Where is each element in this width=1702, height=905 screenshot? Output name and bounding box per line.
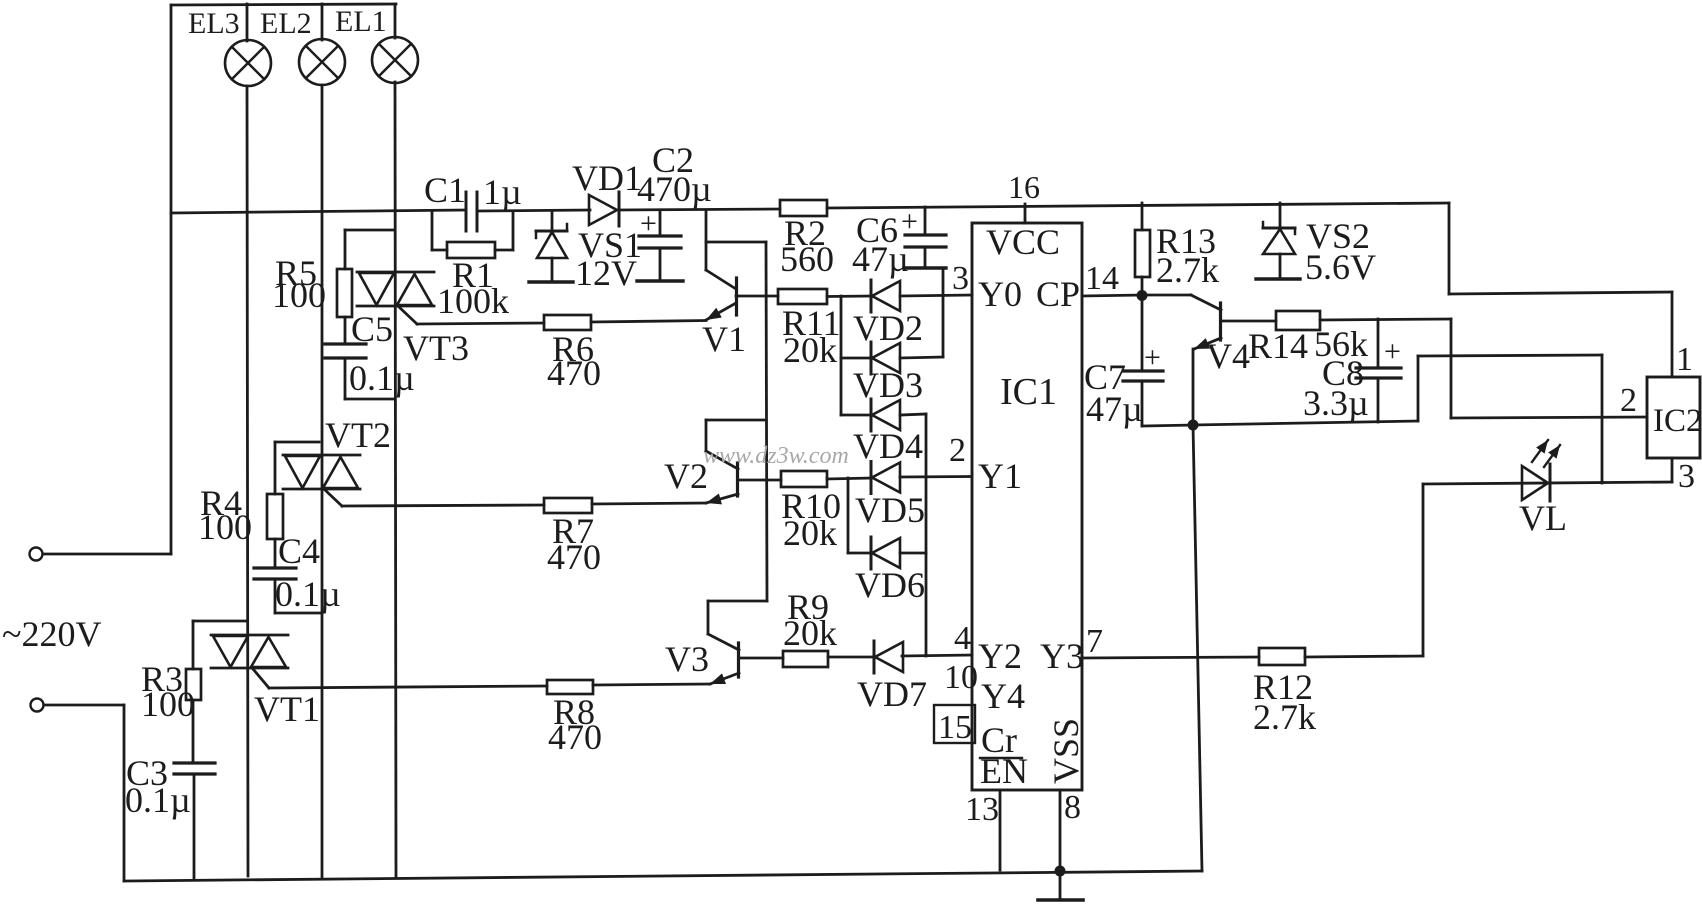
svg-text:VD4: VD4 [853,426,923,466]
svg-text:2.7k: 2.7k [1253,697,1316,737]
svg-text:Y2: Y2 [978,636,1022,676]
svg-text:1µ: 1µ [483,172,522,212]
svg-text:5.6V: 5.6V [1305,247,1376,287]
svg-text:47µ: 47µ [1086,389,1143,429]
svg-text:C1: C1 [424,170,466,210]
svg-text:~220V: ~220V [2,614,101,654]
svg-text:4: 4 [954,620,971,657]
svg-text:470: 470 [548,717,602,757]
svg-text:+: + [640,207,657,240]
svg-text:EN: EN [980,751,1028,791]
svg-text:VD2: VD2 [853,308,923,348]
svg-text:VCC: VCC [986,222,1060,262]
svg-text:EL2: EL2 [260,7,312,40]
svg-text:VD1: VD1 [572,158,642,198]
svg-text:100: 100 [141,684,195,724]
svg-text:14: 14 [1085,260,1119,297]
svg-text:2: 2 [1620,382,1637,419]
svg-text:VD6: VD6 [855,565,925,605]
svg-text:R14: R14 [1248,326,1308,366]
svg-text:15: 15 [938,709,972,746]
svg-text:V4: V4 [1206,336,1250,376]
svg-text:+: + [1144,341,1161,374]
svg-text:1: 1 [1676,341,1693,378]
svg-text:EL3: EL3 [188,7,240,40]
svg-text:+: + [901,205,918,238]
svg-text:VL: VL [1519,498,1567,538]
svg-text:V1: V1 [702,319,746,359]
svg-text:8: 8 [1064,789,1081,826]
svg-text:IC2: IC2 [1653,403,1702,439]
svg-text:470: 470 [547,353,601,393]
svg-text:16: 16 [1008,169,1040,205]
svg-text:100k: 100k [437,281,509,321]
svg-text:3: 3 [952,260,969,297]
svg-text:Y3: Y3 [1040,636,1084,676]
svg-text:3.3µ: 3.3µ [1303,383,1369,423]
svg-text:12V: 12V [575,253,637,293]
svg-text:Y1: Y1 [978,456,1022,496]
svg-text:20k: 20k [783,513,837,553]
svg-text:0.1µ: 0.1µ [349,358,415,398]
svg-text:C5: C5 [351,309,393,349]
svg-text:VD3: VD3 [853,365,923,405]
svg-text:560: 560 [780,239,834,279]
svg-text:VD7: VD7 [857,674,927,714]
svg-text:Y4: Y4 [981,676,1025,716]
svg-text:VSS: VSS [1046,718,1086,784]
svg-text:V2: V2 [664,456,708,496]
svg-text:C4: C4 [278,531,320,571]
svg-text:20k: 20k [783,330,837,370]
svg-text:7: 7 [1086,623,1103,660]
svg-text:2: 2 [949,432,966,469]
svg-text:CP: CP [1036,274,1080,314]
svg-text:20k: 20k [783,613,837,653]
svg-text:47µ: 47µ [852,239,909,279]
svg-text:2.7k: 2.7k [1156,250,1219,290]
svg-text:10: 10 [944,659,978,696]
svg-text:0.1µ: 0.1µ [275,574,341,614]
svg-text:VT2: VT2 [325,415,391,455]
svg-text:3: 3 [1678,458,1695,495]
svg-text:V3: V3 [665,639,709,679]
svg-text:Y0: Y0 [978,274,1022,314]
svg-text:VT1: VT1 [254,689,320,729]
svg-text:470: 470 [547,537,601,577]
svg-text:IC1: IC1 [1000,371,1057,413]
svg-text:100: 100 [198,507,252,547]
svg-text:www.dz3w.com: www.dz3w.com [703,443,849,469]
svg-text:EL1: EL1 [335,5,387,38]
svg-text:VD5: VD5 [855,490,925,530]
svg-text:13: 13 [965,791,999,828]
svg-text:470µ: 470µ [637,169,712,209]
svg-text:+: + [1384,335,1401,368]
svg-text:100: 100 [272,275,326,315]
svg-text:0.1µ: 0.1µ [125,780,191,820]
